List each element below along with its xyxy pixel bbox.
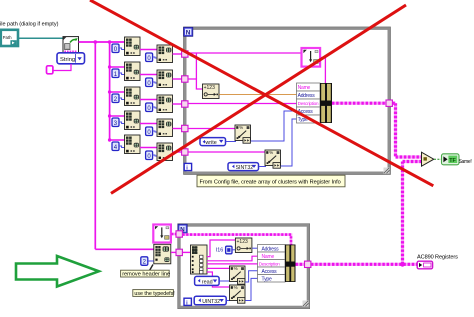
wire: const to index array <box>119 73 125 75</box>
wire: index3 to scan 1 <box>207 267 230 269</box>
junction dot <box>94 40 98 44</box>
svg-text:From Config file, create array: From Config file, create array of cluste… <box>200 179 341 185</box>
for-loop frame (top) <box>185 29 389 173</box>
wire: row1 string jog <box>188 79 203 89</box>
constant: row index <box>146 151 153 160</box>
svg-text:Description: Description <box>259 261 280 266</box>
wire: top loop output to comparator <box>393 102 396 105</box>
node: spreadsheet string to array (bottom) <box>154 244 171 263</box>
constant: index 0 <box>112 44 119 53</box>
node: index array (row 0, col 1) <box>125 37 141 56</box>
wire: index4 to scan 2 <box>207 272 230 287</box>
constant: SINT32 ring <box>228 163 259 171</box>
label: remove header line <box>121 270 170 277</box>
node: index array (row 2, col 2) <box>157 95 173 113</box>
svg-text:Name: Name <box>298 85 311 91</box>
svg-text:write: write <box>204 140 216 146</box>
svg-text:remove header line: remove header line <box>122 272 170 278</box>
wire: boolean result <box>434 158 442 160</box>
wire: trunk down to bottom section <box>94 42 96 249</box>
wire: scan2 result to Type <box>281 119 297 166</box>
node: bundle by name (bottom loop) labels <box>258 245 286 253</box>
node: scan value 2 (top loop) <box>265 150 281 168</box>
for-loop frame (bottom) <box>179 225 308 307</box>
svg-text:Type: Type <box>262 276 272 282</box>
node: bundle by name (top loop) labels <box>297 83 321 91</box>
wire: branch to row 2 <box>110 91 125 93</box>
wire: delete-from-array out to bottom loop (dashed) <box>171 233 176 236</box>
wire: number to Address <box>252 247 257 249</box>
pointer line from label <box>150 265 153 271</box>
wire: path wire to read-file node <box>19 37 63 39</box>
annotation: red X line B <box>90 0 433 186</box>
constant: String combobox <box>57 53 85 64</box>
wire: scan2 result to Type <box>245 278 257 300</box>
wire: string into index array <box>182 251 190 253</box>
node: index array (row 2, col 1) <box>125 87 141 106</box>
wire: header-removed array to bundle (dashed) <box>182 235 291 245</box>
svg-text:UINT32: UINT32 <box>202 299 220 305</box>
annotation: red X line A <box>111 5 406 193</box>
wire: row 0 output into loop <box>173 53 186 55</box>
svg-text:N: N <box>186 29 191 36</box>
wire: branch to row 4 <box>110 139 125 141</box>
node: scan value 1 (bottom loop) <box>230 266 246 284</box>
svg-text:String: String <box>60 57 75 63</box>
wire: const to index array <box>119 146 125 148</box>
node: delete from array (selected, top loop) <box>302 48 321 67</box>
wire: UINT32 to scan 2 <box>226 300 230 302</box>
wire: between index arrays row 0 <box>140 49 157 51</box>
constant: read ring <box>195 276 220 285</box>
node: index array (row 1, col 2) <box>157 70 173 88</box>
node: equal? comparator <box>422 152 434 166</box>
loop count terminal N (bottom loop) <box>178 224 187 233</box>
wire: branch to row 1 <box>110 66 125 68</box>
wire: index1 to Name <box>207 256 258 261</box>
junction dot <box>108 40 112 44</box>
control: file path terminal <box>1 30 18 46</box>
svg-text:Name: Name <box>262 254 275 260</box>
node: bundle by name (top loop) bars <box>320 83 332 123</box>
label: From Config file, create array of clusters with Register Info <box>197 175 345 187</box>
wire: const to index array 2 <box>153 82 157 83</box>
constant: row index <box>146 78 153 87</box>
constant: index 3 <box>112 118 119 127</box>
wire: const to index array 2 <box>153 155 157 156</box>
node: index array (row 4, col 2) <box>157 143 173 161</box>
resize glyph bottom-right corner (bottom loop) <box>303 301 309 307</box>
svg-text:I16: I16 <box>216 248 224 254</box>
wire: between index arrays row 1 <box>140 74 157 76</box>
wire: read to scan 1 <box>219 280 230 282</box>
wire: row0 string to delete-from-array <box>188 52 302 54</box>
wire: I16 to string->number <box>232 249 235 251</box>
constant: UINT32 ring <box>194 296 226 305</box>
tunnel (top loop left edge) <box>182 101 188 107</box>
wire: string constant to combo <box>53 64 71 71</box>
tunnel (top loop left edge) <box>182 149 188 155</box>
svg-text:Address: Address <box>298 93 316 99</box>
wire: SINT32 to scan node 2 <box>259 166 266 168</box>
wire: const to index array <box>119 98 125 100</box>
wire: row3 string to scan node 1 <box>188 128 236 130</box>
tunnel (bottom loop right edge, output) <box>305 261 311 267</box>
constant: empty string <box>47 66 53 74</box>
wire: write to scan node 1 <box>226 141 237 143</box>
wire: const to index array 2 <box>153 57 157 58</box>
wire: index2 to Description <box>207 263 258 265</box>
constant: row index <box>146 127 153 136</box>
wire: const to index array 2 <box>153 107 157 108</box>
node: decimal string to number (bottom) <box>235 238 252 253</box>
node: scan value 1 (top loop) <box>235 125 251 143</box>
constant: write ring <box>200 138 226 146</box>
svg-text:read: read <box>202 280 213 286</box>
wire: bottom loop output up to comparator <box>401 162 404 265</box>
wire: row4 string to scan node 2 <box>188 151 266 153</box>
wire: branch to row 3 <box>110 115 125 117</box>
constant: 2 <box>141 257 148 266</box>
constant: row index <box>146 103 153 112</box>
iteration terminal i (top loop) <box>184 163 191 171</box>
node: index array (row 3, col 2) <box>157 119 173 137</box>
svg-text:file path (dialog if empty): file path (dialog if empty) <box>0 22 59 28</box>
wire: row 1 output into loop <box>173 78 186 80</box>
annotation: green arrow <box>16 256 99 287</box>
svg-text:TF: TF <box>449 158 456 164</box>
svg-text:Address: Address <box>262 246 280 252</box>
tunnel (top loop left edge) <box>182 125 188 131</box>
tunnel (bottom loop, string in) <box>176 249 182 255</box>
node: index array (row 4, col 1) <box>125 135 141 154</box>
wire: scan1 result to Access <box>245 271 257 282</box>
constant: index 1 <box>112 69 119 78</box>
svg-text:Access: Access <box>262 269 278 275</box>
wire: cluster array out of bundle (top loop) <box>332 102 387 105</box>
svg-text:Same!: Same! <box>459 159 472 165</box>
wire: delete-from-array out to bundle <box>321 58 326 84</box>
label: use the typedefs! <box>133 290 175 297</box>
tunnel (top loop left edge) <box>182 76 188 82</box>
wire: row 3 output into loop <box>173 128 186 130</box>
tunnel (bottom loop, array in) <box>176 231 182 237</box>
constant: index 2 <box>112 94 119 103</box>
wire: number to Address (orange) <box>219 94 296 96</box>
iteration terminal i (bottom loop) <box>184 298 191 306</box>
wire: between index arrays row 3 <box>140 123 157 125</box>
junction dot <box>400 262 405 267</box>
node: delete from array (selected, bottom) <box>153 225 171 243</box>
constant: index 4 <box>112 142 119 151</box>
node: scan value 2 (bottom loop) <box>230 285 246 303</box>
indicator: Same? boolean TF <box>442 154 460 165</box>
wire: const to index array <box>119 122 125 124</box>
wire: index0 to string->number <box>207 240 235 257</box>
svg-text:AC890 Registers: AC890 Registers <box>417 255 458 261</box>
node: index array (expanded, bottom loop) <box>191 245 208 274</box>
indicator: AC890 Registers array <box>417 261 432 269</box>
svg-text:Path: Path <box>3 35 13 40</box>
wire: const to index array <box>119 48 125 50</box>
wire: between index arrays row 4 <box>140 147 157 149</box>
loop count terminal N (top loop) <box>184 27 193 36</box>
wire: main string from read-file node <box>79 41 125 43</box>
constant: row index <box>146 53 153 62</box>
wire: bottom loop output to AC890 indicator <box>311 263 417 266</box>
tunnel (top loop left edge) <box>182 51 188 57</box>
wire: row2 string to Description <box>188 103 297 105</box>
node: index array (row 3, col 1) <box>125 111 141 130</box>
wire: between index arrays row 2 <box>140 99 157 101</box>
tunnel (top loop right edge, output) <box>386 100 392 106</box>
wire: string trunk to bottom section <box>95 248 154 250</box>
constant: I16 type <box>226 246 232 254</box>
wire: const 2 to node <box>148 260 154 262</box>
wire: scan1 result to Access <box>251 111 297 141</box>
node: read from text file <box>63 37 79 53</box>
svg-text:Description: Description <box>298 101 319 106</box>
svg-text:use the typedefs!: use the typedefs! <box>134 291 174 297</box>
wire: row 4 output into loop <box>173 151 186 153</box>
wire: const to index array 2 <box>153 131 157 132</box>
node: decimal string to number <box>203 84 220 99</box>
svg-text:SINT32: SINT32 <box>236 165 254 171</box>
wire: trunk down the index-array column <box>109 42 111 140</box>
wire: row 2 output into loop <box>173 103 186 105</box>
wire: cluster array out of bundle (bottom loop) <box>296 263 306 266</box>
node: index array (row 1, col 1) <box>125 62 141 81</box>
resize glyph bottom-right corner (top loop) <box>384 168 390 174</box>
node: index array (row 0, col 2) <box>157 45 173 63</box>
node: bundle by name (bottom loop) bars <box>285 245 296 283</box>
wire: string array to bottom loop <box>171 251 177 253</box>
